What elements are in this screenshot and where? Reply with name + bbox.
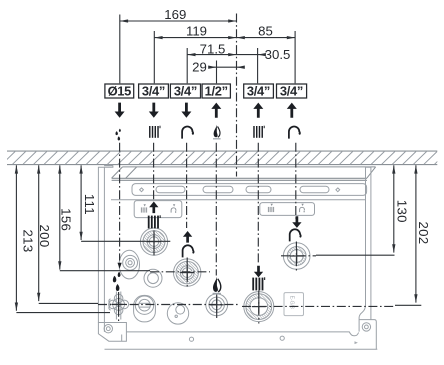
fat arrow down boiler col6: [292, 216, 301, 228]
dim 71.5 and 30.5 line: [187, 54, 265, 56]
left sub-bracket: [134, 201, 182, 218]
flame icon top col4: [214, 125, 220, 137]
svg-text:Ø15: Ø15: [108, 83, 132, 98]
fat arrow down boiler col5: [254, 266, 263, 278]
fat arrow up boiler col2: [149, 202, 158, 214]
dim 29 line: [209, 66, 244, 68]
horizontal ref line 200 level: [39, 302, 98, 304]
svg-text:85: 85: [258, 24, 273, 39]
wall (hatched band): [2, 151, 444, 165]
horizontal ref line 156 level: [60, 270, 150, 272]
tiny pictograms in sub-brackets: [141, 204, 305, 213]
small arrowhead boiler col1: [118, 263, 122, 269]
horizontal ref line 130 level: [281, 255, 316, 257]
connection C2 heating flow circle: [140, 228, 167, 255]
tap icon top col3: [182, 127, 194, 139]
svg-text:169: 169: [164, 7, 186, 22]
radiator icon boiler col2: [148, 215, 161, 228]
svg-text:29: 29: [192, 60, 207, 75]
fat arrow up col5: [253, 103, 263, 118]
fat arrow down col3: [181, 103, 191, 118]
right bracket: [366, 167, 371, 319]
disc component: [167, 303, 188, 324]
connection size label boxes: [105, 84, 307, 98]
svg-text:3/4”: 3/4”: [142, 83, 165, 98]
dimension arrowheads: [15, 19, 418, 310]
right vertical dim lines 130 202: [393, 165, 395, 252]
left vertical dim lines 213 200 156 111: [15, 165, 17, 310]
col3 hot water centerline: [186, 143, 188, 228]
fat arrow up boiler col3: [183, 231, 192, 243]
bottom strip: [127, 332, 359, 336]
tap icon boiler col6: [290, 229, 302, 241]
dim 119 and 85 line: [154, 37, 295, 39]
connection C3 hot water circle: [174, 259, 201, 286]
right foot plate: [359, 320, 376, 350]
svg-text:130: 130: [394, 200, 409, 223]
horizontal ref line 202 level: [242, 305, 395, 307]
boiler top face (perspective): [112, 167, 376, 178]
flame icon boiler col4: [213, 277, 221, 292]
radiator icon top col2: [149, 126, 160, 138]
svg-text:111: 111: [82, 194, 97, 215]
svg-text:3/4”: 3/4”: [280, 83, 303, 98]
svg-text:71.5: 71.5: [200, 41, 226, 56]
svg-text:119: 119: [186, 24, 207, 39]
small circles on strip: [189, 337, 193, 341]
center cross marks: [112, 235, 304, 314]
radiator icon top col5: [253, 126, 264, 138]
svg-text:200: 200: [37, 224, 52, 247]
fat arrow up col6: [287, 103, 297, 118]
fat arrow down col1: [115, 103, 125, 118]
fat arrow down col2: [149, 103, 159, 118]
radiator icon boiler col5: [252, 277, 265, 290]
horizontal ref line 213 level: [16, 312, 110, 314]
electric box: [284, 293, 304, 316]
svg-text:3/4”: 3/4”: [174, 83, 197, 98]
svg-text:3/4”: 3/4”: [247, 83, 270, 98]
left foot plate: [98, 323, 126, 342]
col6 cold water centerline: [295, 143, 297, 219]
condensate drops icon top: [115, 129, 120, 141]
top beam: [112, 178, 367, 180]
mounting strip with slots: [132, 184, 367, 196]
left bracket: [98, 165, 113, 322]
svg-text:213: 213: [20, 229, 35, 252]
col2 heating flow centerline: [153, 143, 155, 200]
horizontal ref line 111 level: [81, 240, 170, 242]
connection C4 gas circle: [206, 294, 228, 316]
svg-text:156: 156: [58, 208, 73, 231]
condensate drops icon boiler col1: [113, 272, 121, 291]
dim 169 line: [120, 20, 237, 22]
tap icon top col6: [289, 127, 301, 139]
col4 gas centerline: [215, 143, 217, 276]
pump egg component: [119, 250, 139, 279]
svg-text:1/2”: 1/2”: [205, 83, 228, 98]
condensate trap: [115, 292, 117, 320]
col1 condensate centerline: [119, 143, 121, 261]
connection C5 heating return circle: [244, 292, 274, 322]
fat arrow up col4: [211, 103, 221, 118]
valve oval component: [134, 295, 156, 322]
col5 heating return centerline: [257, 143, 259, 265]
right sub-bracket: [260, 203, 315, 216]
extension lines above label boxes: [119, 15, 121, 84]
strip end dots: [140, 188, 144, 192]
svg-text:202: 202: [416, 221, 431, 244]
small double circle under C2: [144, 269, 162, 287]
panel seam: [111, 199, 366, 201]
connection C6 cold water circle: [283, 243, 310, 270]
main centerline: [236, 14, 238, 177]
svg-text:30.5: 30.5: [265, 47, 291, 62]
tap icon boiler col3: [183, 245, 195, 257]
